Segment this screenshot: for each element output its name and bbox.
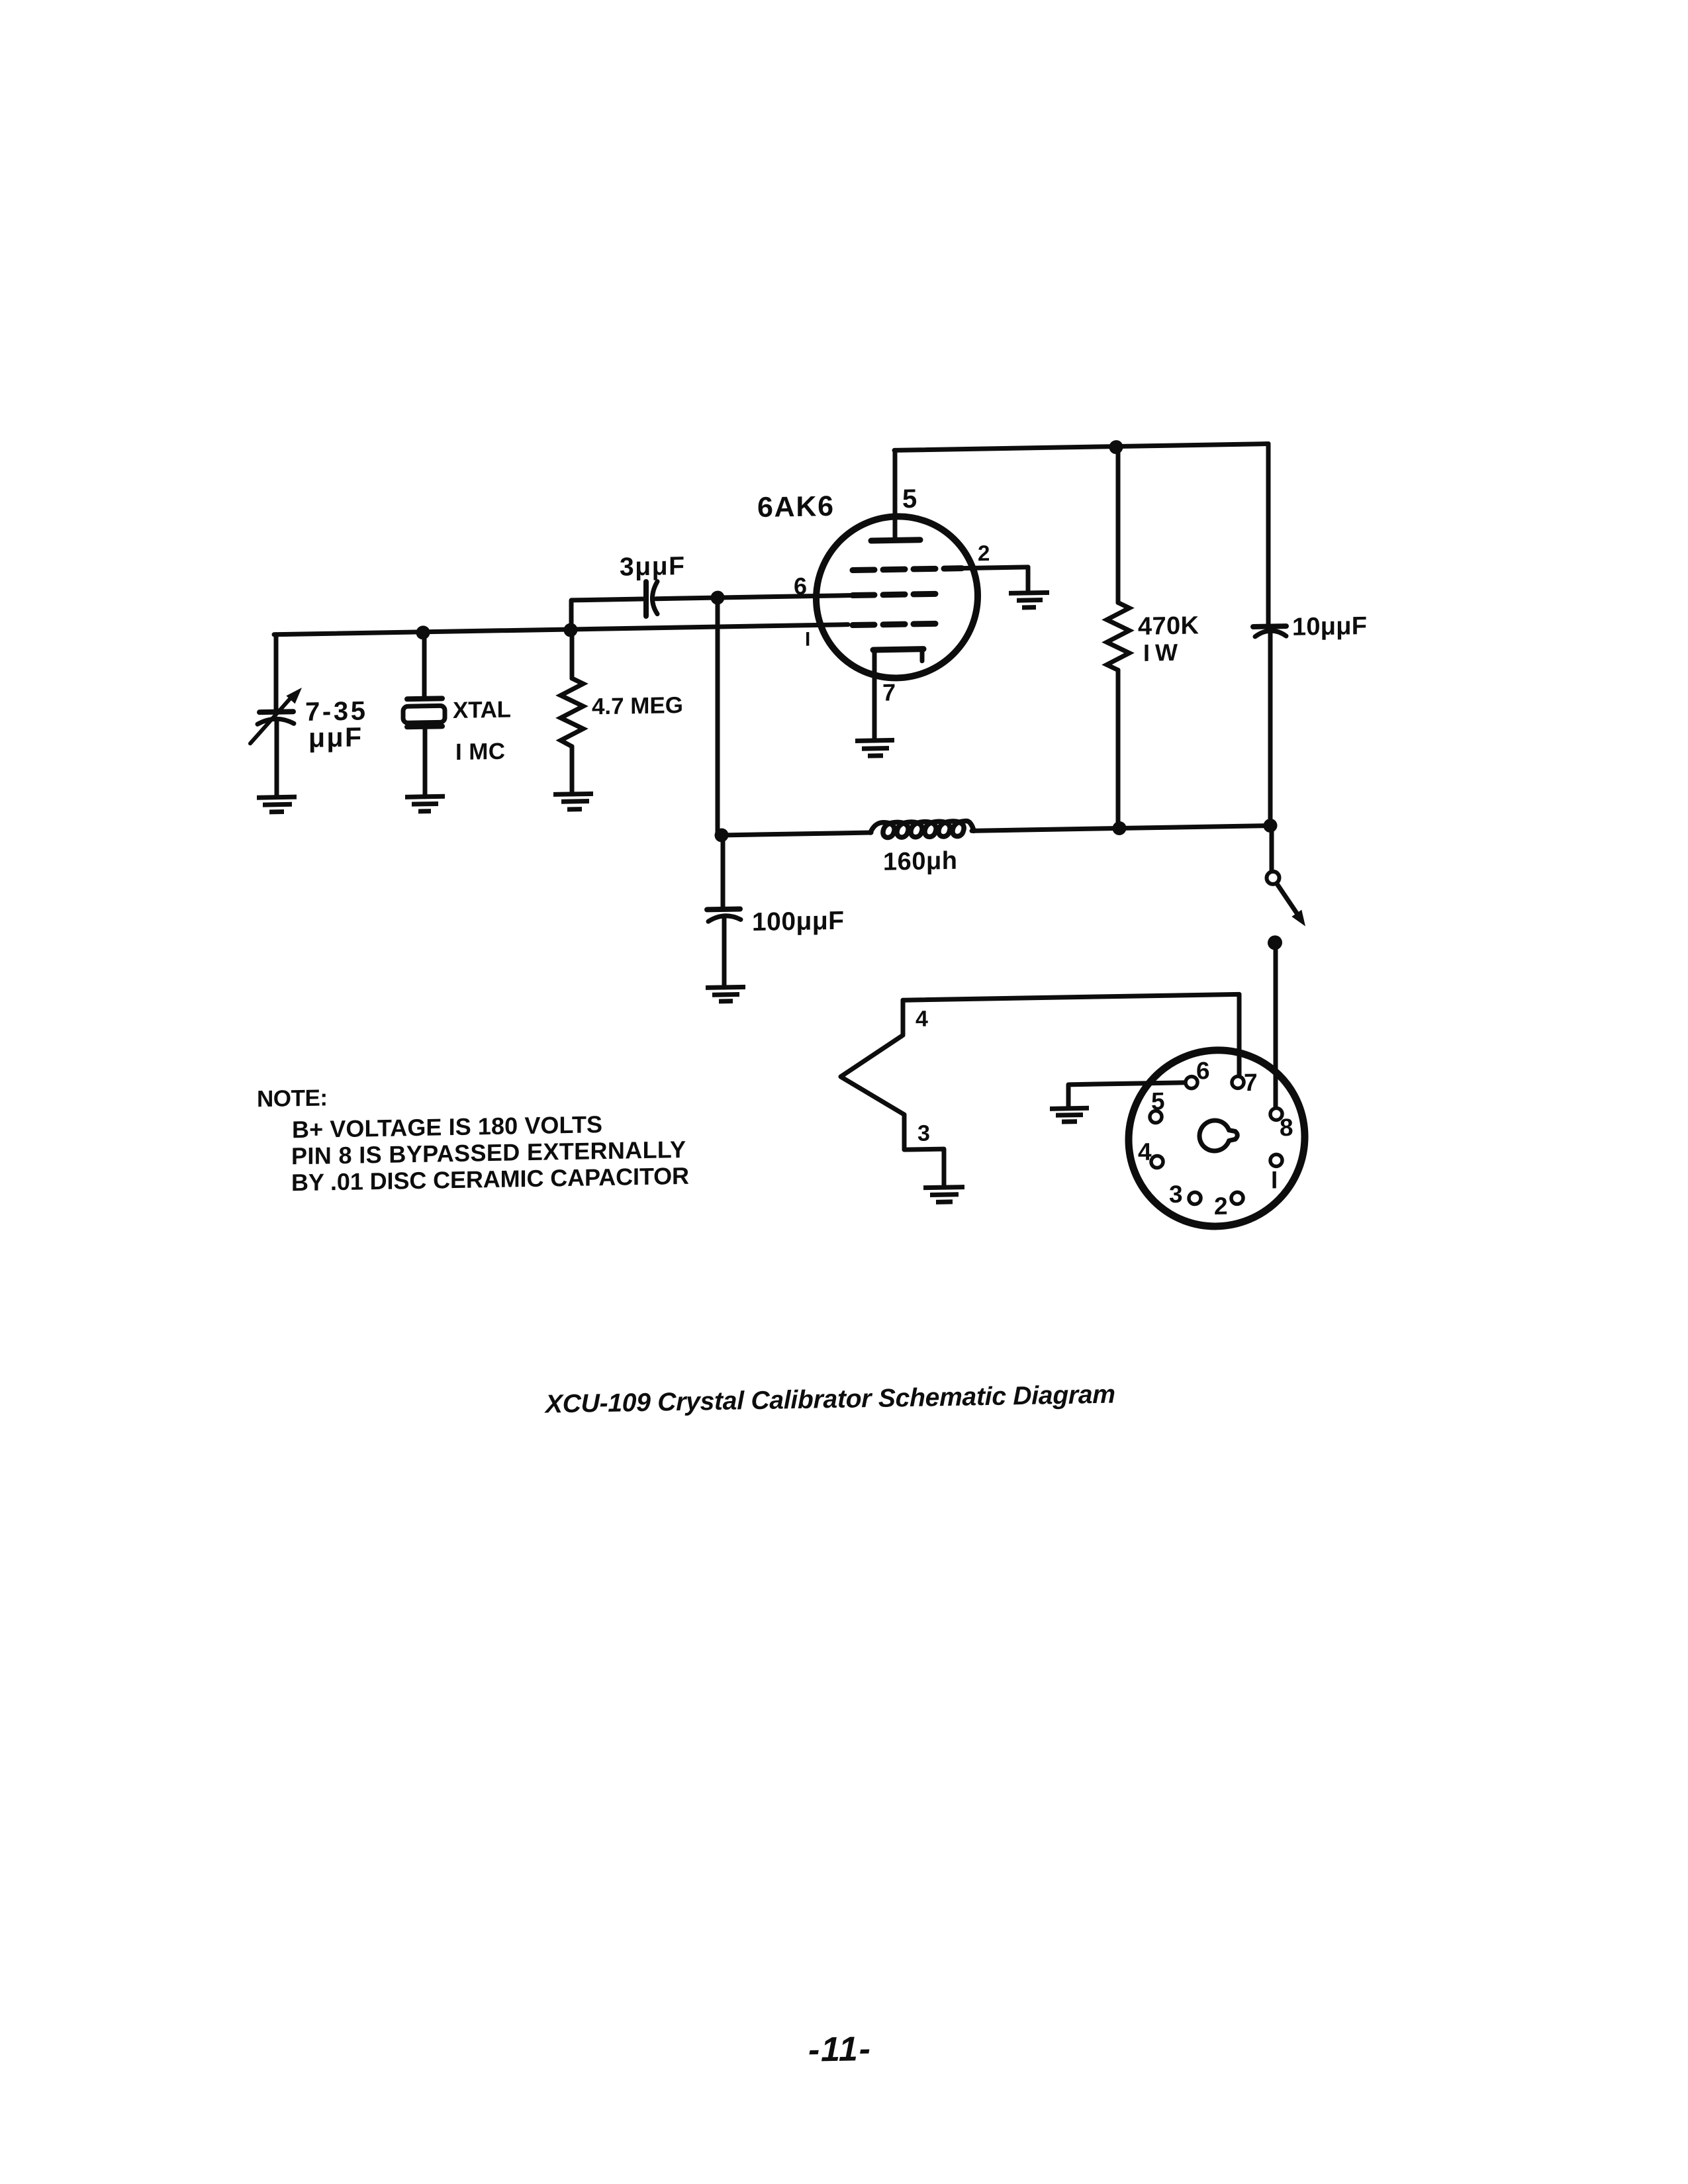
socket pin 2 [1231, 1192, 1243, 1204]
svg-text:XTAL: XTAL [453, 697, 511, 724]
svg-text:7: 7 [882, 678, 896, 705]
junction: B+ node [1109, 440, 1123, 454]
socket center keyway [1199, 1120, 1237, 1151]
capacitor C3 100uuF [707, 909, 741, 921]
svg-text:470K: 470K [1138, 612, 1199, 641]
inductor L1 160uh [870, 821, 974, 838]
svg-text:I: I [805, 629, 810, 651]
junction: switch top node [1264, 819, 1278, 833]
junction: control grid node [711, 590, 725, 604]
svg-text:5: 5 [1151, 1087, 1165, 1115]
capacitor C1 3uuF [646, 582, 657, 616]
svg-text:-11-: -11- [808, 2030, 870, 2070]
ground (pin2) [1009, 592, 1049, 608]
ground (cathode) [855, 740, 894, 756]
plug P1 (phone plug) [841, 999, 944, 1187]
socket pin 1 [1270, 1154, 1282, 1166]
wire: bottom bus right segment [972, 826, 1270, 831]
variable capacitor 7-35 uuF [250, 688, 302, 743]
wire: main grid bus [274, 625, 848, 635]
wire: 7-35 top lead [274, 635, 279, 709]
wire: pin2 to ground [1026, 567, 1031, 592]
wire: 3uuF right link [656, 596, 853, 599]
wire: socket pin6 to ground [1068, 1083, 1186, 1107]
junction: tank node left [715, 828, 729, 842]
wire: B+ top bus [894, 444, 1268, 451]
svg-text:4: 4 [915, 1007, 928, 1032]
socket pin 5 [1150, 1111, 1162, 1122]
socket pin 6 [1186, 1076, 1197, 1088]
svg-text:6: 6 [1196, 1057, 1210, 1084]
wire: 470K lower lead [1116, 670, 1121, 829]
tube plate bar [871, 540, 920, 541]
socket pin 7 [1232, 1076, 1244, 1088]
junction: grid resistor node [564, 623, 578, 637]
svg-text:3μμF: 3μμF [620, 552, 684, 582]
tube cathode [873, 649, 923, 741]
wire: grid node down to tank [716, 598, 720, 835]
svg-text:2: 2 [1214, 1193, 1228, 1220]
svg-text:2: 2 [978, 541, 990, 565]
svg-text:5: 5 [902, 484, 917, 514]
wire: right vertical from B+ bus to 10uuF [1266, 444, 1271, 626]
socket X1 (octal socket) [1129, 1049, 1305, 1228]
svg-text:IW: IW [1143, 639, 1178, 666]
svg-text:3: 3 [917, 1120, 930, 1146]
socket pin 8 [1270, 1108, 1282, 1120]
wire: switch to socket pin8 [1274, 942, 1278, 1108]
ground (4.7MEG) [553, 794, 593, 809]
junction: 470K bottom node [1113, 821, 1127, 835]
svg-text:XCU-109 Crystal Calibrator Sch: XCU-109 Crystal Calibrator Schematic Dia… [544, 1381, 1115, 1419]
ground (xtal) [405, 796, 445, 811]
tube V1 6AK6 envelope [816, 515, 978, 679]
ground (7-35) [257, 797, 297, 812]
wire: 7-35 bottom lead [275, 721, 279, 795]
wire: bottom bus left segment [722, 833, 871, 835]
svg-text:4.7 MEG: 4.7 MEG [592, 692, 683, 719]
resistor R1 470K [1107, 602, 1129, 670]
wire: xtal bottom lead [423, 727, 428, 797]
ground (plug sleeve) [923, 1187, 964, 1203]
wire: 100uuF top lead [721, 835, 726, 907]
svg-text:6: 6 [794, 572, 807, 600]
svg-text:7: 7 [1244, 1069, 1258, 1096]
svg-text:I MC: I MC [455, 739, 505, 765]
svg-text:6AK6: 6AK6 [757, 490, 833, 523]
wire: 4.7MEG upper lead [570, 629, 575, 678]
switch SW1 [1267, 825, 1306, 927]
tube screen grid row (pin2) [853, 569, 962, 570]
wire: 10uuF to bottom bus [1268, 633, 1273, 826]
wire: 100uuF bottom lead [722, 917, 727, 987]
ground (100uuF) [706, 987, 745, 1001]
svg-text:3: 3 [1169, 1181, 1183, 1208]
note text [257, 1079, 689, 1197]
capacitor C4 10uuF [1253, 626, 1286, 637]
svg-text:4: 4 [1138, 1138, 1152, 1165]
wire: plug tip line to socket pin7 [903, 994, 1239, 1082]
wire: 3uuF left link [571, 599, 643, 629]
wire: 470K upper lead [1116, 447, 1121, 603]
wire: screen grid exit to pin2 [962, 567, 1028, 569]
socket pin 4 [1151, 1156, 1163, 1167]
svg-text:100μμF: 100μμF [752, 907, 844, 936]
svg-text:μμF: μμF [308, 721, 361, 752]
socket pin 3 [1189, 1192, 1201, 1204]
svg-text:NOTE:: NOTE: [257, 1085, 328, 1112]
crystal Y1 XTAL 1MC [403, 698, 445, 727]
junction: switch throw dot [1268, 935, 1282, 950]
svg-text:I: I [1271, 1166, 1278, 1193]
wire: xtal top lead [422, 632, 427, 699]
tube suppressor row (pin1) [853, 623, 938, 625]
resistor R2 4.7MEG [561, 678, 583, 747]
svg-text:160μh: 160μh [883, 847, 957, 876]
svg-text:8: 8 [1280, 1114, 1293, 1141]
wire: 4.7MEG lower lead [570, 747, 575, 794]
tube control grid row (pin6) [853, 594, 938, 595]
tube plate riser (pin5) [893, 450, 898, 540]
ground (socket pin6) [1050, 1108, 1089, 1122]
junction: xtal node [416, 625, 430, 639]
svg-text:10μμF: 10μμF [1292, 612, 1367, 641]
